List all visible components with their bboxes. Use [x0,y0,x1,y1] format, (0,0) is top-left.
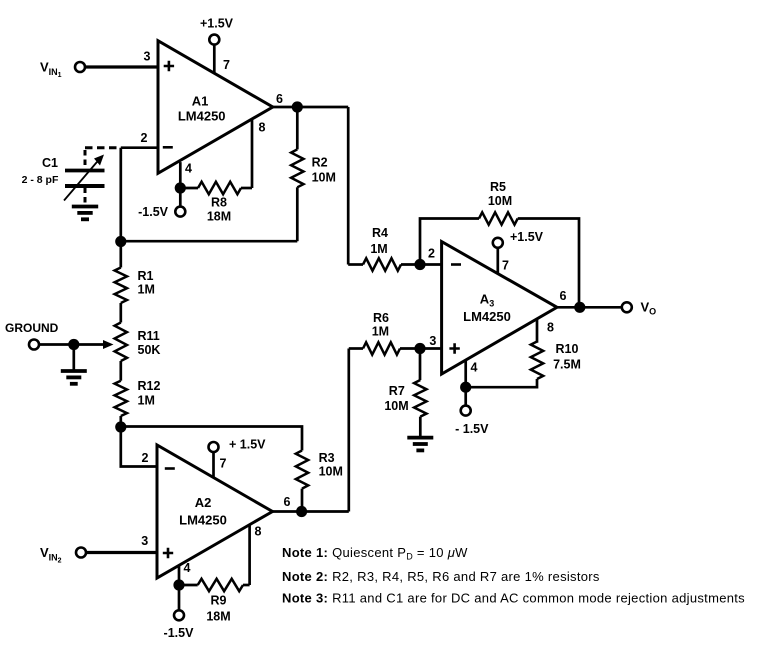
svg-text:VO: VO [641,300,657,317]
resistor R10 [466,342,581,388]
wire A2 output up to R6 [347,349,350,512]
svg-text:1M: 1M [370,242,387,256]
wire R9 to A2 pin 8 [248,525,251,585]
svg-text:+1.5V: +1.5V [200,17,234,31]
svg-text:GROUND: GROUND [5,321,59,335]
wire A2 pin4 to -1.5V [178,585,181,610]
svg-text:Note 2: R2, R3, R4, R5, R6 and: Note 2: R2, R3, R4, R5, R6 and R7 are 1%… [282,569,600,584]
note 3 [282,591,745,606]
svg-text:8: 8 [255,525,262,539]
svg-text:1M: 1M [138,394,155,408]
pin 6 label A1 [276,92,283,106]
svg-text:-1.5V: -1.5V [138,205,169,219]
pin 3 label A3 [429,334,436,348]
terminal VIN1 [40,60,85,80]
svg-text:Note 1: Quiescent PD = 10 μW: Note 1: Quiescent PD = 10 μW [282,545,468,562]
wire VIN2 to A2 pin 3 [86,551,157,554]
svg-text:2: 2 [428,247,435,261]
svg-text:C1: C1 [42,156,58,170]
pin 7 label A3 [502,259,509,273]
junction A3 pin 4 [460,382,471,393]
svg-text:R1: R1 [138,269,154,283]
pin 3 label A2 [141,534,148,548]
pin 8 label A3 [547,321,554,335]
ground C1 [72,207,98,220]
svg-text:R8: R8 [211,196,227,210]
junction A2 pin 4 [173,579,184,590]
svg-text:R5: R5 [490,180,506,194]
svg-text:3: 3 [141,534,148,548]
svg-text:-1.5V: -1.5V [164,626,195,640]
svg-text:4: 4 [184,561,191,575]
svg-text:3: 3 [144,50,151,64]
pin 7 label A2 [220,457,227,471]
svg-text:R9: R9 [211,594,227,608]
svg-text:- 1.5V: - 1.5V [455,422,489,436]
pin 4 label A3 [471,361,478,375]
svg-text:10M: 10M [488,194,512,208]
terminal GROUND [5,321,59,350]
svg-text:4: 4 [185,162,192,176]
junction A1 pin 4 [175,182,186,193]
svg-text:R4: R4 [372,226,388,240]
resistor R5 feedback [420,180,579,307]
svg-text:7: 7 [220,457,227,471]
terminal VIN2 [40,545,86,565]
svg-text:LM4250: LM4250 [178,109,226,124]
junction GROUND [68,339,79,350]
pin 4 label A2 [184,561,191,575]
wire A3 pin4 to -1.5V [464,387,467,405]
terminal +1.5V A1 [200,17,234,45]
wire A3 pin 4 [464,360,467,387]
pin 2 label A1 [141,131,148,145]
pin 3 label A1 [144,50,151,64]
junction node A (R1/R2/pin2) [115,236,126,247]
wire R2 bottom to node [121,240,297,243]
svg-text:1M: 1M [372,325,389,339]
junction A3 pin 3 [414,343,425,354]
terminal VO [622,300,656,317]
wire A2 pin 7 supply [212,452,215,478]
resistor R7 [384,349,426,438]
svg-text:8: 8 [547,321,554,335]
wire A1 output down to R4 [347,107,350,265]
resistor R3 [296,451,343,512]
wire A3 pin 7 supply [496,248,499,274]
wire A3 pin 8 [536,319,539,343]
wire A1 pin 7 supply [213,45,216,73]
wire A1 pin 4 [179,162,182,188]
pin 2 label A3 [428,247,435,261]
svg-text:18M: 18M [207,210,231,224]
pin 6 label A2 [284,495,291,509]
svg-text:4: 4 [471,361,478,375]
resistor R4 [348,226,441,271]
ground R7 [407,438,433,451]
svg-text:A2: A2 [195,495,212,510]
wiper arrow R11 [79,340,114,349]
svg-text:8: 8 [259,121,266,135]
pin 7 label A1 [223,58,230,72]
svg-text:R3: R3 [319,451,335,465]
svg-text:6: 6 [276,92,283,106]
svg-text:3: 3 [429,334,436,348]
wire A1 output [273,106,348,109]
svg-text:2 - 8 pF: 2 - 8 pF [22,174,59,186]
resistor R1 [115,242,155,304]
pin 8 label A2 [255,525,262,539]
wire node B to R3 [121,427,302,451]
svg-text:10M: 10M [312,171,336,185]
capacitor C1 [22,148,119,205]
svg-text:A3: A3 [480,292,494,309]
svg-text:LM4250: LM4250 [463,309,511,324]
svg-text:VIN1: VIN1 [40,60,62,80]
note 1 [282,545,468,562]
wire A1 pin4 to -1.5V [179,188,182,207]
svg-text:+ 1.5V: + 1.5V [229,438,266,452]
ground symbol main [61,345,87,384]
terminal +1.5V A3 [493,230,544,248]
terminal -1.5V A3 [455,406,489,436]
svg-text:10M: 10M [384,399,408,413]
svg-text:R6: R6 [373,311,389,325]
svg-text:R10: R10 [556,342,579,356]
wire R8 to A1 pin 8 [251,119,254,188]
wire A2 output [273,510,349,513]
resistor R8 [180,182,252,224]
resistor R9 [179,579,250,624]
svg-text:50K: 50K [138,343,161,357]
svg-text:LM4250: LM4250 [179,513,227,528]
wire A1 pin 2 input [121,146,158,149]
wire A3 output [557,306,622,309]
resistor R6 [349,311,442,355]
svg-text:6: 6 [284,495,291,509]
resistor R12 [115,361,161,427]
junction A3 pin 2 [414,259,425,270]
wire node B to A2 pin 2 [121,427,157,467]
pin 4 label A1 [185,162,192,176]
terminal +1.5V A2 [209,438,267,453]
op-amp A1 [158,41,273,174]
svg-text:R2: R2 [312,156,328,170]
svg-text:Note 3: R11 and C1 are for DC: Note 3: R11 and C1 are for DC and AC com… [282,591,745,606]
svg-text:R11: R11 [138,329,160,343]
svg-text:+1.5V: +1.5V [510,230,544,244]
wire A1 inverting node down [119,148,122,242]
svg-text:R12: R12 [138,379,161,393]
svg-text:2: 2 [141,131,148,145]
resistor R2 [291,107,336,241]
op-amp A2 [157,445,273,578]
svg-text:1M: 1M [138,283,155,297]
svg-text:7: 7 [223,58,230,72]
svg-text:2: 2 [142,451,149,465]
svg-text:R7: R7 [389,384,405,398]
potentiometer R11 [115,303,161,361]
svg-text:6: 6 [560,289,567,303]
pin 2 label A2 [142,451,149,465]
terminal -1.5V A2 [164,610,195,640]
op-amp A3 [442,242,557,374]
junction A2 output [296,506,307,517]
pin 6 label A3 [560,289,567,303]
svg-text:18M: 18M [206,610,230,624]
note 2 [282,569,600,584]
wire GROUND [39,343,79,346]
wire A2 pin 4 [178,565,181,585]
pin 8 label A1 [259,121,266,135]
junction A1 output [292,101,303,112]
svg-text:10M: 10M [319,465,343,479]
svg-text:7: 7 [502,259,509,273]
svg-text:VIN2: VIN2 [40,545,62,565]
junction node B (R12/R3/pin2 A2) [115,421,126,432]
svg-text:7.5M: 7.5M [553,358,581,372]
wire VIN1 to A1 pin 3 [85,65,158,68]
junction A3 output [574,302,585,313]
svg-text:A1: A1 [192,94,209,109]
terminal -1.5V A1 [138,205,185,219]
